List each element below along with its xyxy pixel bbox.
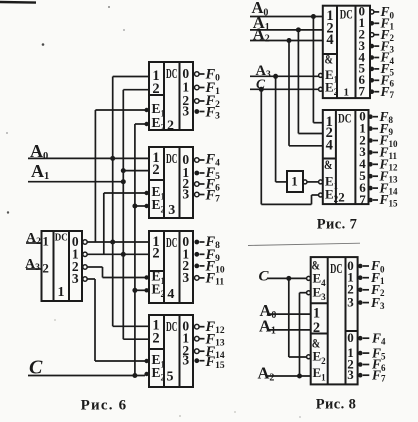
svg-text:A1: A1: [31, 161, 49, 182]
svg-text:Рис. 8: Рис. 8: [316, 397, 357, 413]
svg-text:DC: DC: [330, 262, 343, 277]
svg-text:A2: A2: [258, 364, 275, 384]
svg-text:DC: DC: [340, 7, 353, 22]
svg-text:3: 3: [182, 353, 189, 368]
svg-text:Рис. 7: Рис. 7: [317, 216, 358, 232]
svg-text:C: C: [29, 357, 43, 379]
svg-text:A3: A3: [25, 257, 40, 273]
svg-text:C: C: [256, 76, 266, 91]
svg-text:DC: DC: [166, 320, 178, 335]
svg-text:DC: DC: [166, 152, 178, 167]
svg-text:2: 2: [152, 81, 159, 97]
svg-text:3: 3: [168, 203, 175, 218]
svg-text:2: 2: [152, 331, 159, 347]
svg-text:DC: DC: [166, 236, 178, 251]
svg-text:1: 1: [42, 234, 49, 249]
svg-text:E1: E1: [313, 365, 327, 383]
svg-text:2: 2: [338, 189, 345, 204]
svg-text:0: 0: [347, 330, 354, 345]
svg-text:C: C: [259, 269, 270, 285]
svg-text:7: 7: [359, 192, 366, 207]
svg-text:4: 4: [326, 32, 333, 48]
svg-text:3: 3: [347, 294, 354, 309]
svg-text:2: 2: [152, 246, 159, 262]
svg-text:F4: F4: [371, 330, 386, 346]
svg-text:3: 3: [182, 270, 189, 285]
svg-text:A0: A0: [30, 141, 48, 162]
svg-text:4: 4: [167, 287, 174, 302]
svg-text:1: 1: [343, 86, 349, 98]
svg-text:4: 4: [326, 137, 333, 153]
svg-text:3: 3: [72, 271, 79, 286]
svg-text:2: 2: [42, 261, 49, 276]
svg-text:&: &: [324, 157, 333, 172]
svg-text:E2: E2: [313, 349, 327, 367]
svg-text:2: 2: [167, 118, 174, 133]
svg-text:3: 3: [347, 367, 354, 382]
svg-text:DC: DC: [338, 111, 352, 125]
svg-text:7: 7: [359, 84, 366, 99]
svg-text:3: 3: [182, 187, 189, 202]
svg-text:5: 5: [167, 370, 174, 385]
svg-text:&: &: [325, 52, 334, 67]
svg-text:A2: A2: [26, 231, 41, 247]
svg-text:Рис. 6: Рис. 6: [81, 398, 128, 414]
svg-text:2: 2: [152, 162, 159, 178]
svg-text:DC: DC: [55, 231, 68, 243]
svg-text:1: 1: [58, 285, 65, 300]
svg-text:3: 3: [182, 104, 189, 119]
svg-text:DC: DC: [166, 67, 178, 82]
svg-text:1: 1: [291, 174, 298, 189]
svg-text:2: 2: [313, 320, 320, 336]
